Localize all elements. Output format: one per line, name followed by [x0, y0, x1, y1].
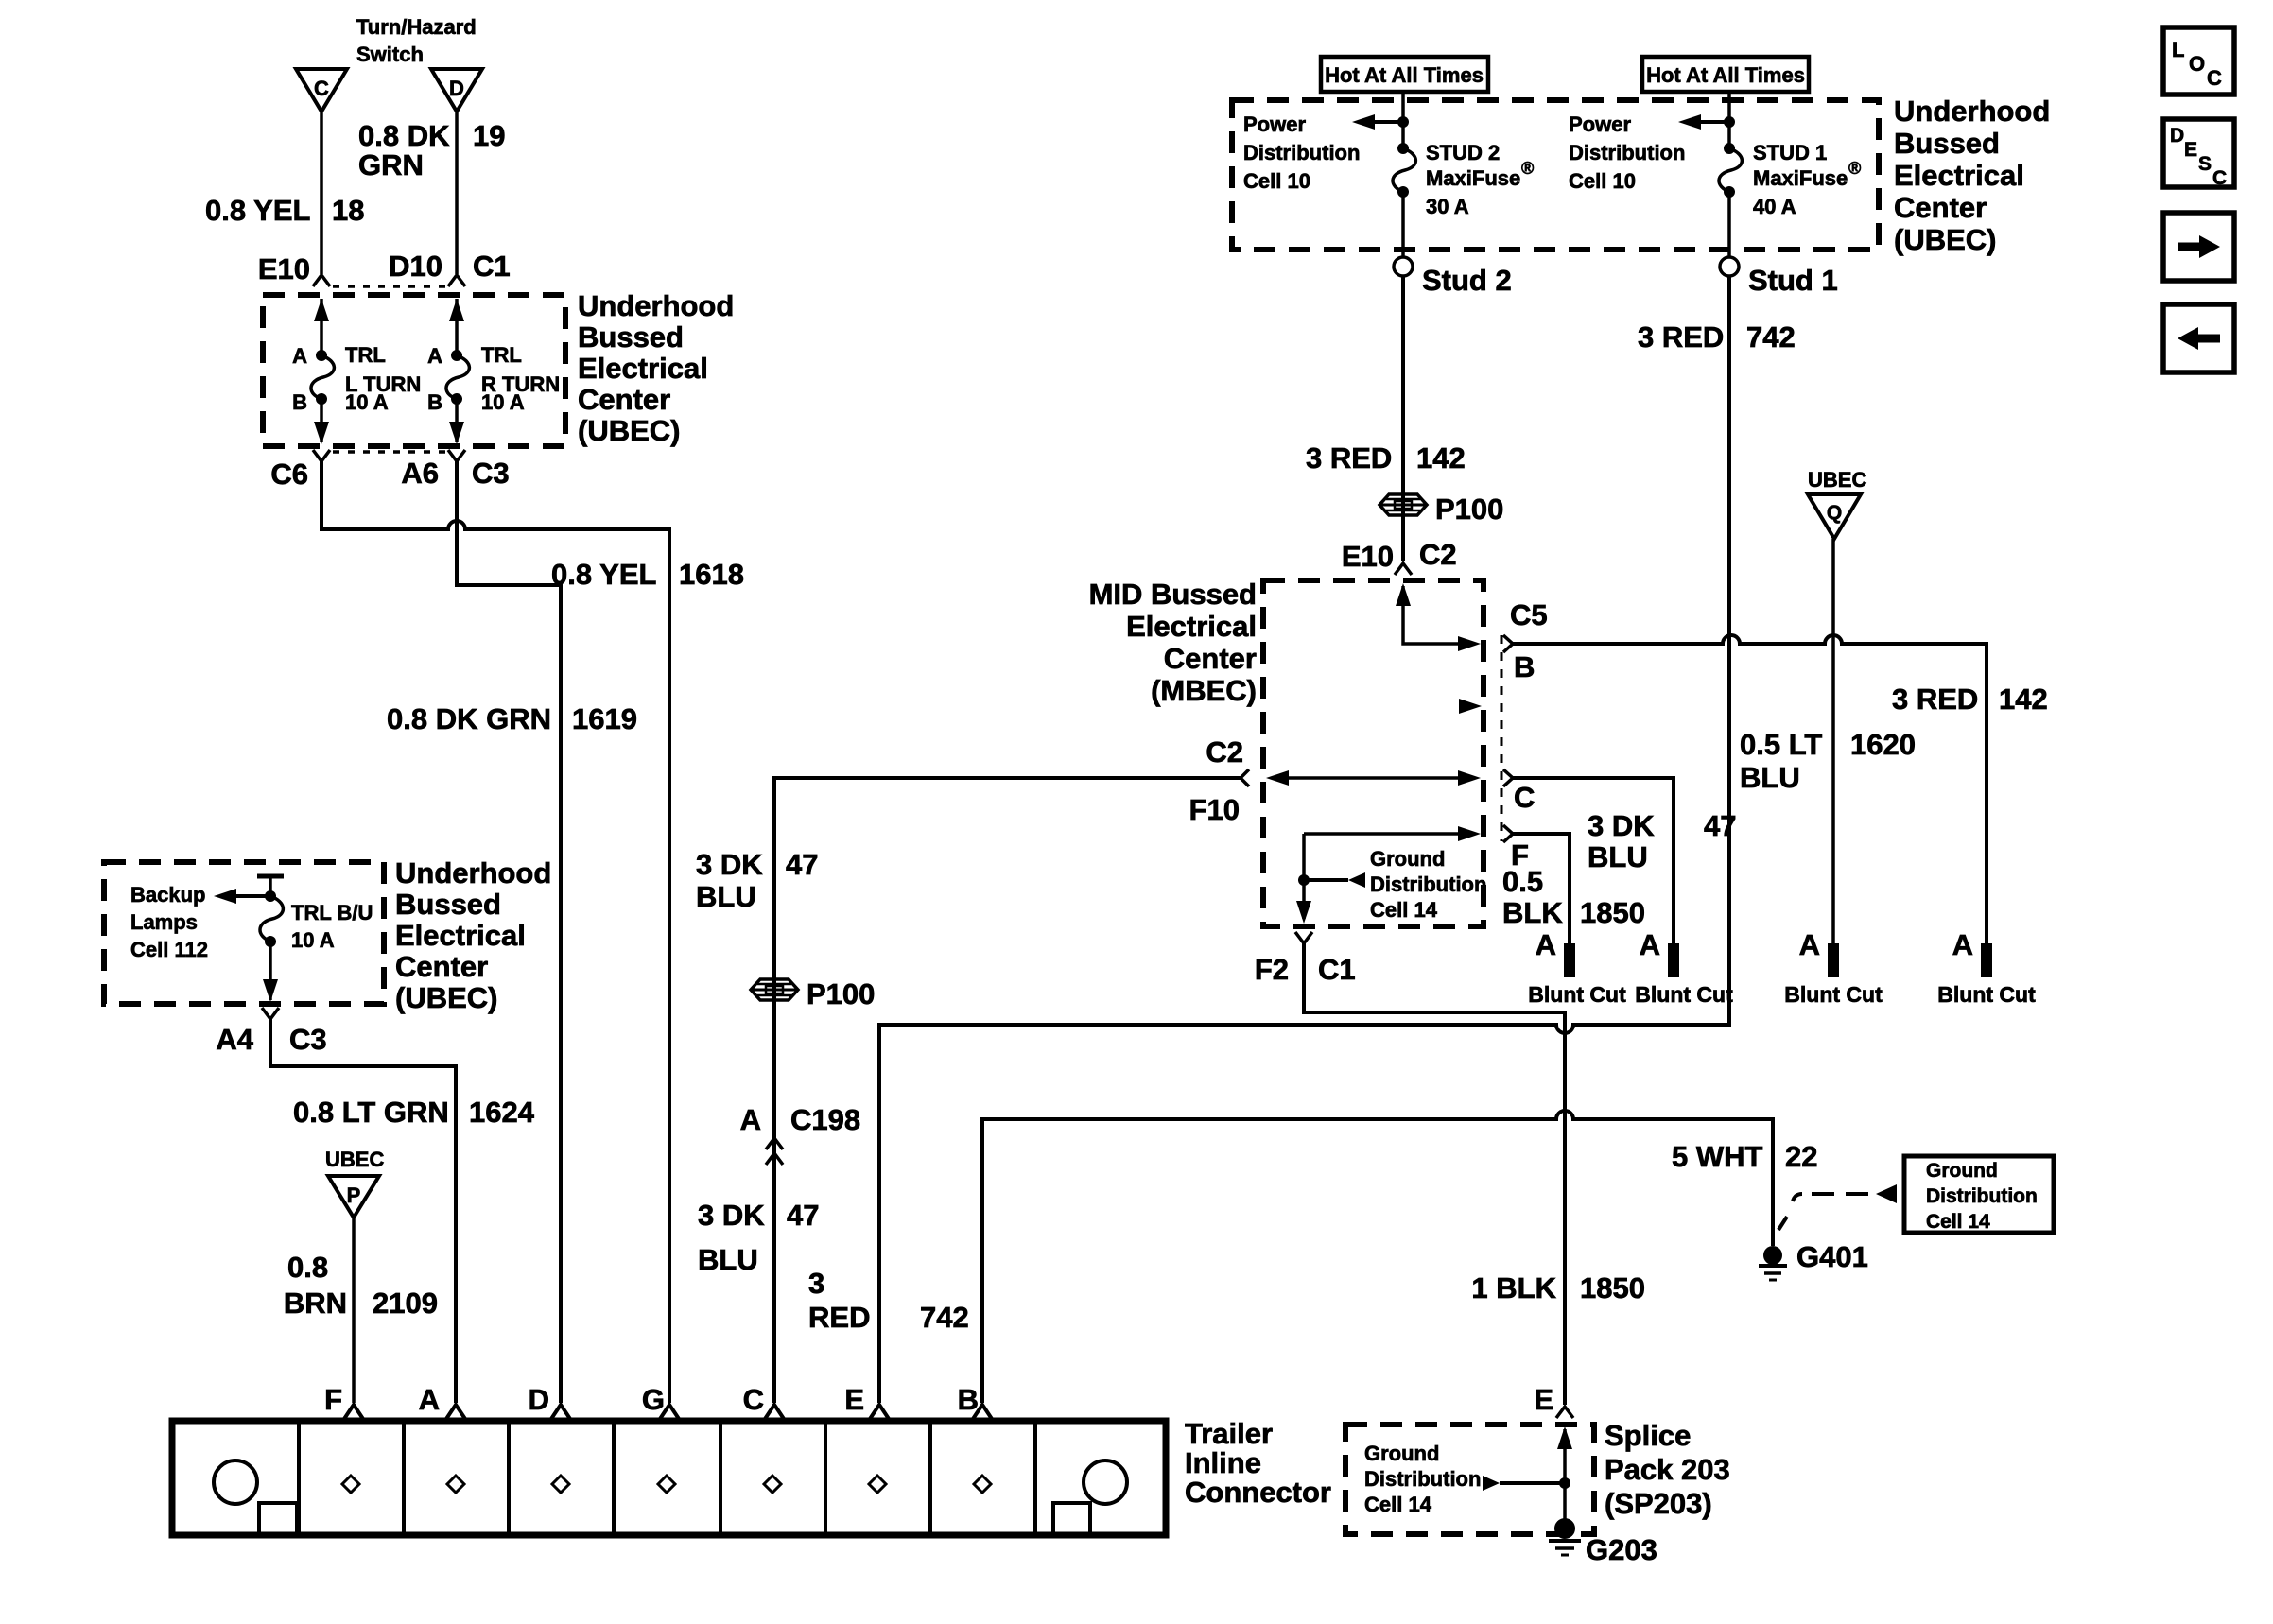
- svg-text:D: D: [2170, 125, 2184, 147]
- wire C6 down then right to G column (0.8 YEL 1618) with hop over C3 wire: [321, 461, 669, 1403]
- ground distribution pointer (MBEC): [1304, 872, 1365, 888]
- svg-text:142: 142: [1416, 441, 1466, 475]
- wire 3 RED 142 from stud 2 down to MBEC E10: [1401, 276, 1405, 561]
- svg-text:Cell 14: Cell 14: [1364, 1493, 1432, 1516]
- svg-text:1620: 1620: [1850, 728, 1916, 761]
- pin chevron F: [344, 1405, 363, 1419]
- svg-text:10 A: 10 A: [291, 928, 335, 952]
- svg-text:F10: F10: [1189, 793, 1240, 826]
- left key notch: [259, 1503, 297, 1532]
- svg-text:40 A: 40 A: [1753, 195, 1796, 218]
- svg-text:742: 742: [1746, 320, 1796, 354]
- svg-text:A: A: [1640, 928, 1660, 961]
- svg-text:Cell 10: Cell 10: [1569, 169, 1636, 193]
- connector face dotted line C6-A6-C3: [333, 450, 445, 454]
- svg-text:A: A: [427, 344, 442, 368]
- fuse TRL R TURN 10 A: [446, 350, 469, 405]
- svg-text:0.8 LT GRN: 0.8 LT GRN: [293, 1096, 449, 1129]
- svg-text:142: 142: [1999, 682, 2048, 716]
- label 3 DK BLU 47 (middle): [696, 848, 818, 913]
- label 5 WHT 22: [1672, 1140, 1817, 1173]
- UBEC heading (backup lamps box): [395, 856, 551, 1014]
- svg-text:P100: P100: [1435, 492, 1503, 526]
- svg-text:Bussed: Bussed: [395, 888, 501, 921]
- svg-text:3 RED: 3 RED: [1306, 441, 1392, 475]
- fuse name STUD 1 MaxiFuse 40 A: [1753, 141, 1861, 218]
- svg-text:19: 19: [473, 119, 505, 152]
- svg-text:B: B: [427, 390, 442, 414]
- svg-text:Distribution: Distribution: [1370, 872, 1486, 896]
- svg-text:A: A: [419, 1383, 440, 1416]
- svg-text:L: L: [2172, 38, 2184, 61]
- MBEC internal wire F with arrow: [1304, 826, 1481, 841]
- svg-text:D10: D10: [389, 250, 442, 283]
- label 3 RED 142 (stud 2 wire): [1306, 441, 1466, 475]
- svg-text:0.8: 0.8: [287, 1251, 328, 1284]
- wire below fuse with down arrow: [263, 942, 278, 1002]
- svg-text:P100: P100: [807, 977, 875, 1011]
- UBEC (top-left) dashed component box: [263, 295, 565, 446]
- svg-text:B: B: [292, 390, 307, 414]
- svg-text:Ground: Ground: [1364, 1442, 1439, 1465]
- blunt cut bar 3 (0.5 LT BLU 1620): [1828, 943, 1839, 977]
- svg-text:G: G: [642, 1383, 665, 1416]
- Trailer Inline Connector body: [172, 1421, 1166, 1535]
- LOC reference box: [2163, 27, 2234, 95]
- arrow up into UBEC on left fuse wire: [314, 299, 329, 352]
- svg-text:Cell 14: Cell 14: [1370, 898, 1438, 922]
- wire below left fuse with down arrow: [314, 399, 329, 444]
- svg-text:C: C: [314, 77, 329, 100]
- svg-text:E: E: [844, 1383, 864, 1416]
- MBEC internal ground branch: vertical with junction and down arrow: [1296, 834, 1311, 924]
- inline connector P100 on 3 RED 142: [1379, 494, 1427, 515]
- svg-text:C2: C2: [1419, 538, 1457, 571]
- svg-text:Pack 203: Pack 203: [1605, 1453, 1730, 1486]
- wire C out right then down to blunt cut (3 DK BLU 47): [1513, 778, 1674, 943]
- MBEC connector face dashed line (right side): [1501, 635, 1503, 841]
- connector chevron F (MBEC right): [1503, 825, 1513, 842]
- svg-text:47: 47: [786, 848, 818, 881]
- svg-text:3 DK: 3 DK: [696, 848, 763, 881]
- right-arrow reference box: [2163, 213, 2234, 281]
- svg-text:1850: 1850: [1580, 1271, 1645, 1304]
- inline connector C198 double chevron: [766, 1138, 783, 1165]
- pin cavity diamonds: [342, 1476, 991, 1493]
- wire: 0.8 YEL 18 from switch C: [320, 112, 323, 274]
- svg-text:A: A: [1799, 928, 1820, 961]
- left-arrow reference box: [2163, 304, 2234, 372]
- svg-text:UBEC: UBEC: [325, 1148, 384, 1171]
- svg-text:0.5 LT: 0.5 LT: [1740, 728, 1822, 761]
- blunt cut bar 2 (3 DK BLU 47): [1668, 943, 1679, 977]
- svg-text:G401: G401: [1796, 1240, 1868, 1273]
- fuse name TRL L TURN 10 A: [345, 343, 421, 414]
- svg-text:E: E: [1534, 1383, 1553, 1416]
- svg-text:Inline: Inline: [1185, 1446, 1261, 1479]
- MBEC internal wire: E10 entry down and right to C5 with arrows: [1396, 583, 1481, 651]
- fuse STUD 1 MaxiFuse 40 A: [1719, 143, 1742, 198]
- svg-text:®: ®: [1848, 159, 1861, 178]
- fuse TRL L TURN 10 A: [311, 350, 334, 405]
- svg-text:C3: C3: [289, 1023, 327, 1056]
- svg-text:Blunt Cut: Blunt Cut: [1635, 982, 1733, 1007]
- svg-text:Distribution: Distribution: [1243, 141, 1360, 164]
- switch terminal triangle C: [296, 69, 347, 112]
- svg-text:O: O: [2189, 52, 2205, 76]
- wire below right fuse with down arrow: [449, 399, 464, 444]
- svg-text:47: 47: [787, 1199, 819, 1232]
- svg-text:Distribution: Distribution: [1364, 1467, 1481, 1491]
- fuse terminal labels A B (right fuse): [427, 344, 442, 414]
- Trailer Inline Connector heading: [1185, 1417, 1331, 1509]
- svg-text:1618: 1618: [679, 558, 744, 591]
- svg-text:Distribution: Distribution: [1569, 141, 1685, 164]
- svg-text:Center: Center: [578, 383, 670, 416]
- svg-text:Bussed: Bussed: [578, 320, 684, 354]
- svg-text:RED: RED: [808, 1301, 870, 1334]
- label 0.8 DK GRN 1619: [387, 702, 637, 735]
- fuse STUD 2 MaxiFuse 30 A: [1393, 143, 1415, 198]
- svg-text:Cell 112: Cell 112: [130, 938, 208, 961]
- svg-text:UBEC: UBEC: [1808, 468, 1866, 492]
- svg-text:(UBEC): (UBEC): [1894, 223, 1997, 256]
- svg-text:Connector: Connector: [1185, 1476, 1331, 1509]
- svg-text:C2: C2: [1206, 735, 1243, 769]
- wire C5 out to the right, hops over 742 and Q wires, down to blunt cut: [1513, 635, 1987, 943]
- svg-text:S: S: [2198, 153, 2212, 175]
- svg-text:C198: C198: [790, 1103, 860, 1136]
- svg-text:STUD 2: STUD 2: [1426, 141, 1500, 164]
- Ground Distribution Cell 14 box (G401): [1904, 1156, 2054, 1233]
- label 3 RED 742 (lower, pin E wire): [808, 1267, 969, 1334]
- connector chevron C2/F10 (left of MBEC): [1241, 769, 1249, 786]
- svg-text:Trailer: Trailer: [1185, 1417, 1273, 1450]
- fuse TRL B/U 10 A: [260, 896, 283, 947]
- svg-text:TRL B/U: TRL B/U: [291, 901, 373, 924]
- label 0.8 DK GRN: [358, 119, 450, 181]
- wire C3 down then jog right to D column (0.8 DK GRN 1619): [457, 461, 561, 1403]
- svg-text:Power: Power: [1569, 112, 1631, 136]
- svg-text:30 A: 30 A: [1426, 195, 1469, 218]
- svg-text:5 WHT: 5 WHT: [1672, 1140, 1763, 1173]
- wire 5 WHT 22: from pin B up, right with hop, down to G401: [982, 1111, 1773, 1403]
- svg-text:C1: C1: [1318, 953, 1356, 986]
- svg-text:TRL: TRL: [481, 343, 522, 367]
- svg-text:Splice: Splice: [1605, 1419, 1691, 1452]
- UBEC (top-right) dashed component box: [1232, 100, 1879, 250]
- svg-text:C6: C6: [270, 458, 308, 491]
- svg-text:10 A: 10 A: [481, 390, 525, 414]
- svg-text:F: F: [324, 1383, 342, 1416]
- svg-text:22: 22: [1785, 1140, 1817, 1173]
- stub arrow at MBEC terminal B: [1459, 699, 1482, 714]
- pin chevron C: [765, 1405, 784, 1419]
- pin chevron D: [551, 1405, 570, 1419]
- svg-text:2109: 2109: [373, 1287, 438, 1320]
- svg-text:0.5: 0.5: [1502, 865, 1543, 898]
- svg-text:0.8 DK GRN: 0.8 DK GRN: [387, 702, 551, 735]
- UBEC heading (top-left): [578, 289, 734, 447]
- arrow up into UBEC on right fuse wire: [449, 299, 464, 352]
- text Power Distribution Cell 10 (left): [1243, 112, 1360, 193]
- pin chevron A: [446, 1405, 465, 1419]
- label 1 BLK 1850: [1471, 1271, 1645, 1304]
- svg-text:Underhood: Underhood: [1894, 95, 2050, 128]
- stud 1 terminal circle: [1720, 257, 1739, 276]
- wire: 0.8 DK GRN 19 from switch D: [455, 112, 459, 274]
- wire from triangle P to pin F (0.8 BRN 2109): [352, 1218, 356, 1403]
- svg-text:C5: C5: [1510, 598, 1548, 631]
- wire from fuse to stud 2: [1401, 192, 1405, 257]
- ground symbol G401: [1759, 1246, 1787, 1280]
- svg-text:Electrical: Electrical: [1894, 159, 2024, 192]
- svg-text:Cell 14: Cell 14: [1926, 1211, 1990, 1233]
- bus bar tap atop TRL B/U fuse: [257, 874, 284, 879]
- connector chevron at C1: [448, 275, 465, 286]
- svg-text:BLU: BLU: [1588, 840, 1648, 873]
- svg-text:MID Bussed: MID Bussed: [1089, 578, 1257, 611]
- svg-text:Cell 10: Cell 10: [1243, 169, 1310, 193]
- label 3 RED 742 (stud 1 wire): [1638, 320, 1796, 354]
- splice pack internal wire with up arrow and ground: [1557, 1426, 1572, 1524]
- svg-text:1619: 1619: [572, 702, 637, 735]
- svg-text:3 DK: 3 DK: [1588, 809, 1655, 842]
- svg-text:Ground: Ground: [1370, 847, 1445, 871]
- wire from triangle Q down to blunt cut (0.5 LT BLU 1620): [1831, 539, 1835, 943]
- svg-text:Electrical: Electrical: [578, 352, 708, 385]
- svg-text:0.8 DK: 0.8 DK: [358, 119, 450, 152]
- wire from fuse to stud 1: [1727, 192, 1731, 257]
- wire from Hot box down to stud 1 fuse: [1727, 92, 1731, 147]
- label 3 DK BLU 47 (MBEC C wire): [1588, 809, 1736, 873]
- svg-text:C: C: [2207, 66, 2222, 90]
- label 3 RED 142 (right blunt cut wire): [1892, 682, 2048, 716]
- svg-text:Center: Center: [1894, 191, 1987, 224]
- connector chevron below box at C3: [448, 450, 465, 461]
- svg-text:3: 3: [808, 1267, 824, 1300]
- wire 3 DK BLU 47: from MBEC F10 line left, down through P100 and C198 to pin C: [774, 778, 1241, 1403]
- Hot At All Times box (right): [1642, 57, 1809, 92]
- svg-text:Underhood: Underhood: [578, 289, 734, 322]
- pin chevron B: [973, 1405, 992, 1419]
- svg-text:Center: Center: [395, 950, 488, 983]
- svg-text:1 BLK: 1 BLK: [1471, 1271, 1556, 1304]
- svg-text:P: P: [347, 1183, 361, 1207]
- svg-text:D: D: [529, 1383, 549, 1416]
- svg-text:E10: E10: [258, 252, 310, 285]
- ground symbol G203: [1549, 1518, 1581, 1555]
- connector chevron E (splice pack): [1556, 1407, 1573, 1418]
- connector chevron C (MBEC right): [1503, 769, 1513, 786]
- label 3 DK BLU 47 (lower): [698, 1199, 819, 1276]
- junction dot stud 1 feed: [1724, 116, 1735, 128]
- wire F out right then down to blunt cut (0.5 BLK 1850): [1513, 834, 1570, 943]
- svg-text:Power: Power: [1243, 112, 1306, 136]
- junction dot backup lamps feed: [265, 890, 276, 902]
- pin chevron E: [870, 1405, 889, 1419]
- connector chevron C5: [1503, 635, 1513, 652]
- svg-text:Electrical: Electrical: [395, 919, 526, 952]
- ground G401: dashed reference to Ground Distribution Cell 14: [1778, 1194, 1868, 1230]
- UBEC reference triangle Q: [1808, 494, 1861, 539]
- pin chevron G: [660, 1405, 679, 1419]
- svg-text:742: 742: [920, 1301, 969, 1334]
- Splice Pack dashed box: [1345, 1425, 1594, 1534]
- connector chevron below box at C6: [313, 450, 330, 461]
- svg-text:3 RED: 3 RED: [1892, 682, 1978, 716]
- arrow to Power Distribution (right, stud 1): [1678, 114, 1729, 130]
- svg-text:Electrical: Electrical: [1126, 610, 1257, 643]
- junction dot stud 2 feed: [1397, 116, 1409, 128]
- connector chevron at MBEC E10/C2: [1395, 563, 1412, 575]
- svg-text:A4: A4: [216, 1023, 253, 1056]
- DESC reference box: [2163, 119, 2234, 189]
- connector chevron at E10: [313, 275, 330, 286]
- wire A4 down, jog right to A column (0.8 LT GRN 1624): [270, 1019, 456, 1403]
- MBEC dashed component box: [1263, 580, 1484, 926]
- svg-text:MaxiFuse: MaxiFuse: [1426, 166, 1520, 190]
- svg-text:Stud 1: Stud 1: [1748, 264, 1838, 297]
- svg-text:Ground: Ground: [1926, 1160, 1998, 1182]
- fuse name TRL B/U 10 A: [291, 901, 373, 952]
- Splice Pack 203 heading: [1605, 1419, 1730, 1520]
- svg-text:47: 47: [1704, 809, 1736, 842]
- svg-text:Blunt Cut: Blunt Cut: [1528, 982, 1626, 1007]
- wire F2/C1 down, right, down to splice pack (1 BLK 1850): [1304, 943, 1565, 1405]
- svg-text:E: E: [2184, 139, 2197, 161]
- svg-text:TRL: TRL: [345, 343, 386, 367]
- svg-text:1624: 1624: [469, 1096, 535, 1129]
- wire 3 RED 742: stud 1 down, left with hop, down to pin E: [879, 276, 1729, 1403]
- fuse terminal labels A B (left fuse): [292, 344, 307, 414]
- svg-text:Distribution: Distribution: [1926, 1185, 2038, 1207]
- blunt cut bar 4 (3 RED 142): [1981, 943, 1992, 977]
- svg-text:C1: C1: [473, 250, 511, 283]
- svg-text:G203: G203: [1586, 1533, 1657, 1566]
- svg-text:0.8 YEL: 0.8 YEL: [205, 194, 310, 227]
- svg-text:3 DK: 3 DK: [698, 1199, 765, 1232]
- svg-text:Center: Center: [1164, 642, 1257, 675]
- svg-text:Blunt Cut: Blunt Cut: [1784, 982, 1883, 1007]
- svg-text:Turn/Hazard: Turn/Hazard: [356, 15, 477, 39]
- svg-text:Blunt Cut: Blunt Cut: [1937, 982, 2036, 1007]
- label 0.5 LT BLU 1620: [1740, 728, 1916, 794]
- svg-text:10 A: 10 A: [345, 390, 389, 414]
- svg-text:Backup: Backup: [130, 883, 205, 907]
- svg-text:BLU: BLU: [698, 1243, 758, 1276]
- svg-text:A: A: [292, 344, 307, 368]
- svg-text:(SP203): (SP203): [1605, 1487, 1712, 1520]
- connector chevron F2/C1 below MBEC: [1295, 932, 1312, 943]
- svg-text:0.8 YEL: 0.8 YEL: [551, 558, 656, 591]
- svg-text:BRN: BRN: [284, 1287, 347, 1320]
- Turn/Hazard Switch label: [356, 15, 477, 66]
- inline connector P100 on 3 DK BLU 47: [751, 979, 798, 1000]
- text Ground Distribution Cell 14 (MBEC): [1370, 847, 1486, 922]
- text Power Distribution Cell 10 (right): [1569, 112, 1685, 193]
- svg-text:A: A: [1536, 928, 1556, 961]
- svg-text:STUD 1: STUD 1: [1753, 141, 1827, 164]
- MBEC internal wire C2/F10 to C with double arrows: [1266, 770, 1481, 786]
- svg-text:Q: Q: [1827, 502, 1842, 524]
- fuse name STUD 2 MaxiFuse 30 A: [1426, 141, 1534, 218]
- blunt cut bar 1 (0.5 BLK 1850): [1564, 943, 1575, 977]
- label 0.8 LT GRN 1624: [293, 1096, 535, 1129]
- text Backup Lamps Cell 112: [130, 883, 208, 961]
- arrowhead into ground distribution box (G401): [1876, 1184, 1897, 1203]
- svg-text:®: ®: [1521, 159, 1534, 178]
- label 0.5 BLK 1850 (MBEC F wire): [1502, 865, 1645, 929]
- right key notch: [1053, 1503, 1090, 1532]
- Backup Lamps UBEC dashed component box: [104, 862, 384, 1004]
- svg-text:B: B: [1514, 650, 1535, 683]
- svg-text:A: A: [740, 1103, 761, 1136]
- connector left mounting circle: [214, 1460, 257, 1504]
- svg-text:Switch: Switch: [356, 43, 424, 66]
- svg-text:Stud 2: Stud 2: [1422, 264, 1512, 297]
- wire from bar to fuse: [269, 876, 272, 896]
- svg-text:Hot At All Times: Hot At All Times: [1646, 63, 1805, 87]
- svg-text:D: D: [449, 77, 464, 100]
- MBEC heading: [1089, 578, 1257, 707]
- connector face dotted line E10-D10-C1: [333, 285, 445, 288]
- svg-text:C3: C3: [472, 457, 510, 490]
- svg-text:(MBEC): (MBEC): [1151, 674, 1257, 707]
- svg-text:3 RED: 3 RED: [1638, 320, 1724, 354]
- svg-text:C: C: [2212, 167, 2227, 189]
- label 0.8 BRN 2109: [284, 1251, 438, 1320]
- svg-text:BLK: BLK: [1502, 896, 1563, 929]
- svg-text:BLU: BLU: [1740, 761, 1800, 794]
- arrow to Power Distribution (left, stud 2): [1352, 114, 1403, 130]
- svg-text:BLU: BLU: [696, 880, 756, 913]
- connector chevron at A4/C3: [262, 1008, 279, 1019]
- svg-text:C: C: [1514, 781, 1535, 814]
- wire from Hot box down to stud 2 fuse: [1401, 92, 1405, 147]
- text Ground Distribution Cell 14 (splice pack): [1364, 1442, 1481, 1516]
- svg-text:Lamps: Lamps: [130, 910, 198, 934]
- svg-text:(UBEC): (UBEC): [578, 414, 681, 447]
- connector right mounting circle: [1084, 1460, 1127, 1504]
- svg-text:Bussed: Bussed: [1894, 127, 2000, 160]
- svg-text:C: C: [743, 1383, 764, 1416]
- connector cell dividers: [299, 1421, 1035, 1535]
- svg-text:18: 18: [332, 194, 364, 227]
- arrow to Backup Lamps (points left): [214, 889, 270, 904]
- label 0.8 YEL 1618: [551, 558, 744, 591]
- switch terminal triangle D: [431, 69, 482, 112]
- svg-text:F2: F2: [1255, 953, 1289, 986]
- UBEC reference triangle P: [328, 1176, 379, 1218]
- svg-text:B: B: [958, 1383, 979, 1416]
- svg-text:A: A: [1952, 928, 1973, 961]
- svg-text:Underhood: Underhood: [395, 856, 551, 890]
- svg-text:A6: A6: [401, 457, 439, 490]
- Hot At All Times box (left): [1321, 57, 1488, 92]
- fuse name TRL R TURN 10 A: [481, 343, 560, 414]
- stud 2 terminal circle: [1394, 257, 1413, 276]
- svg-text:Hot At All Times: Hot At All Times: [1325, 63, 1484, 87]
- ground distribution pointer (splice pack): [1483, 1476, 1565, 1491]
- svg-text:1850: 1850: [1580, 896, 1645, 929]
- svg-text:E10: E10: [1342, 540, 1394, 573]
- svg-text:GRN: GRN: [358, 148, 424, 181]
- svg-text:MaxiFuse: MaxiFuse: [1753, 166, 1848, 190]
- UBEC heading (top-right): [1894, 95, 2050, 256]
- svg-text:(UBEC): (UBEC): [395, 981, 498, 1014]
